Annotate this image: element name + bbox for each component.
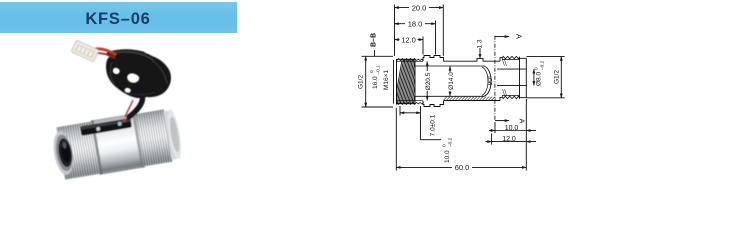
dim: top 18.0 [435,21,437,55]
dim: G1/2 right [527,56,565,58]
svg-text:12.0: 12.0 [401,35,416,44]
section line A-A dash-dot [494,36,496,121]
dim: 10.0 right [494,122,496,133]
red wire stub on module [122,118,126,122]
svg-text:A: A [515,34,524,39]
leader + label: 10.0 0/-0.2 [421,139,442,141]
dim: top 12.0 [422,37,424,55]
dim: 12.0 right [491,134,493,145]
dim: 7.0 +-0.1 [399,106,401,116]
svg-text:10.0: 10.0 [505,125,519,132]
svg-text:0: 0 [534,67,540,70]
dim: G1/2 left vertical line [365,56,367,107]
right thread collar [135,109,172,166]
dim: left side extension lines [362,55,394,57]
svg-text:20.0: 20.0 [412,3,427,12]
part: d8 hole lines [497,68,526,70]
cable bundle [106,52,171,98]
red wires to connector [95,49,116,55]
part: seat arc 90deg [484,66,491,96]
part: flange with bumps (bottom) [423,101,444,107]
svg-text:12.0: 12.0 [502,136,516,143]
part: main body top line with 1.3 step [444,59,501,62]
sensor module [80,118,132,136]
white connector [71,40,99,62]
thread crest zigzag top [397,59,424,61]
svg-text:16.0: 16.0 [372,76,379,89]
part: flange with bumps (top) [423,56,444,62]
part: right step verticals [500,58,502,62]
svg-text:M16×1: M16×1 [383,70,390,90]
svg-text:–0.2: –0.2 [448,137,454,147]
svg-text:90°: 90° [486,75,494,85]
svg-text:Ø14.0: Ø14.0 [448,72,455,90]
svg-text:G1/2: G1/2 [554,70,561,84]
label: 16.0 tolerance [369,65,382,89]
part: main body bottom line [444,100,501,102]
svg-text:1.3: 1.3 [477,39,484,48]
left thread collar [56,121,101,179]
svg-text:–0.2: –0.2 [540,60,546,70]
svg-text:G1/2: G1/2 [358,75,365,89]
svg-text:0: 0 [369,70,375,73]
section arrow A top [495,36,509,38]
part: left thread M16 hatched block [394,58,422,104]
red wire near module [125,100,133,117]
screws [96,127,101,132]
mid body [91,113,145,175]
banner bar [0,2,237,33]
svg-text:18.0: 18.0 [408,20,423,29]
section arrow A bottom [495,120,509,122]
part: bore lines d14 [415,65,484,67]
dim: top 20.0 [394,5,396,57]
dim: 60.0 [395,108,397,171]
svg-text:60.0: 60.0 [455,163,470,172]
thread crest zigzag bottom [397,103,424,105]
svg-text:A: A [518,118,527,123]
left face ring [51,130,76,176]
svg-text:–0.1: –0.1 [376,65,382,75]
dim: d14.0 [449,66,451,96]
part: right end face block [520,58,527,97]
right thread partial hatch [503,60,505,67]
part: right thread G1/2 [502,56,520,58]
svg-text:7.0±0.1: 7.0±0.1 [430,114,437,136]
part: left face [393,60,395,104]
svg-text:10.0: 10.0 [444,150,451,163]
svg-text:B–B: B–B [371,33,378,47]
dim: d8.0 [533,69,535,85]
svg-text:Ø20.5: Ø20.5 [425,72,432,90]
svg-text:0: 0 [442,144,448,147]
thread root lines [397,60,424,62]
hatch: bottom wall section [443,96,498,100]
dim: d20.5 [426,62,428,101]
right end cap [163,110,180,160]
svg-text:KFS–06: KFS–06 [85,10,150,28]
svg-text:Ø8.0: Ø8.0 [536,72,543,86]
